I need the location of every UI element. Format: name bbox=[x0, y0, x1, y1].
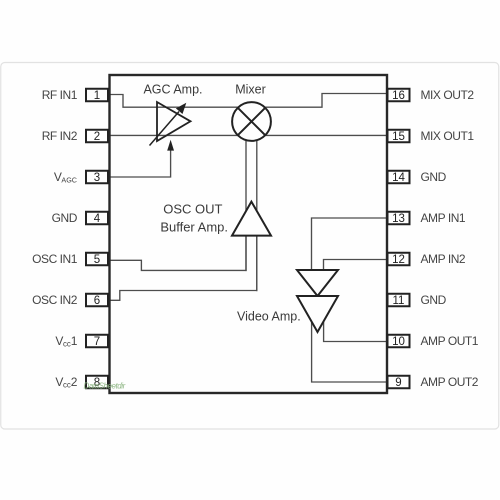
svg-text:AMP OUT2: AMP OUT2 bbox=[421, 375, 479, 389]
svg-text:MIX OUT2: MIX OUT2 bbox=[421, 88, 475, 102]
svg-text:Video Amp.: Video Amp. bbox=[237, 310, 301, 324]
svg-text:AMP IN1: AMP IN1 bbox=[421, 211, 466, 225]
svg-text:GND: GND bbox=[421, 293, 447, 307]
svg-text:RF IN1: RF IN1 bbox=[42, 88, 78, 102]
svg-text:AMP IN2: AMP IN2 bbox=[421, 252, 466, 266]
svg-text:DataSheetdir: DataSheetdir bbox=[84, 382, 126, 391]
svg-text:OSC OUT: OSC OUT bbox=[163, 201, 222, 216]
svg-text:MIX OUT1: MIX OUT1 bbox=[421, 129, 475, 143]
svg-text:10: 10 bbox=[392, 336, 405, 348]
svg-text:OSC IN2: OSC IN2 bbox=[32, 293, 78, 307]
svg-text:9: 9 bbox=[395, 377, 401, 389]
svg-text:OSC IN1: OSC IN1 bbox=[32, 252, 78, 266]
svg-text:AGC Amp.: AGC Amp. bbox=[143, 83, 202, 97]
svg-text:1: 1 bbox=[94, 90, 100, 102]
svg-text:Mixer: Mixer bbox=[235, 83, 266, 97]
svg-text:16: 16 bbox=[392, 90, 405, 102]
svg-text:13: 13 bbox=[392, 213, 405, 225]
svg-text:GND: GND bbox=[52, 211, 78, 225]
svg-text:7: 7 bbox=[94, 336, 100, 348]
svg-text:6: 6 bbox=[94, 295, 100, 307]
svg-text:15: 15 bbox=[392, 131, 405, 143]
svg-text:AMP OUT1: AMP OUT1 bbox=[421, 334, 479, 348]
svg-text:12: 12 bbox=[392, 254, 405, 266]
svg-text:4: 4 bbox=[94, 213, 101, 225]
svg-text:11: 11 bbox=[393, 295, 405, 307]
svg-text:RF IN2: RF IN2 bbox=[42, 129, 78, 143]
svg-text:5: 5 bbox=[94, 254, 100, 266]
svg-text:3: 3 bbox=[94, 172, 100, 184]
svg-text:Buffer Amp.: Buffer Amp. bbox=[160, 220, 228, 235]
svg-text:2: 2 bbox=[94, 131, 100, 143]
svg-text:14: 14 bbox=[392, 172, 405, 184]
svg-text:GND: GND bbox=[421, 170, 447, 184]
